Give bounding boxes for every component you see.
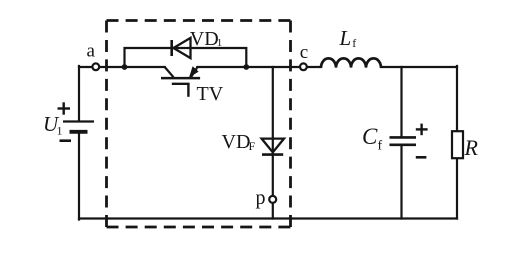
battery minus sign	[60, 139, 72, 142]
capacitor Cf bottom plate	[390, 144, 417, 147]
transistor TV collector diagonal	[165, 67, 174, 77]
svg-text:f: f	[352, 36, 356, 50]
battery U1 long plate	[63, 120, 94, 122]
capacitor plus sign	[416, 124, 428, 136]
svg-text:L: L	[339, 26, 352, 50]
transistor TV emitter diagonal	[191, 67, 197, 77]
freewheel diode VDF triangle	[262, 139, 284, 153]
node p terminal circle	[269, 196, 276, 203]
svg-text:VD: VD	[190, 28, 219, 50]
diode VD1 triangle	[174, 38, 191, 58]
capacitor minus sign	[416, 156, 427, 159]
wire: main top bus after inductor to right corner	[381, 66, 457, 68]
svg-text:VD: VD	[222, 131, 251, 153]
node a terminal circle	[92, 63, 99, 70]
wire: bottom return bus	[79, 217, 457, 219]
svg-text:p: p	[256, 187, 266, 209]
svg-text:TV: TV	[197, 83, 224, 105]
svg-text:1: 1	[217, 37, 223, 49]
svg-text:f: f	[378, 139, 383, 154]
diode VD1 cathode bar	[170, 40, 173, 56]
wire: main top bus right of TV to inductor	[197, 66, 321, 68]
junction dot left (collector node)	[122, 64, 128, 70]
junction dot right (emitter node)	[243, 64, 249, 70]
wire: left vertical (source branch)	[78, 66, 80, 220]
capacitor Cf top plate	[390, 136, 417, 139]
svg-text:c: c	[300, 42, 308, 63]
transistor TV gate lead	[187, 84, 189, 97]
svg-text:1: 1	[57, 124, 63, 138]
resistor R body	[452, 131, 463, 158]
svg-text:C: C	[362, 124, 378, 149]
transistor TV base bar	[161, 77, 200, 80]
freewheel diode VDF cathode bar	[262, 153, 283, 156]
transistor TV emitter arrow	[189, 66, 199, 77]
dashed enclosure box	[107, 21, 291, 228]
svg-text:R: R	[464, 135, 479, 160]
battery plus sign	[58, 102, 71, 114]
inductor Lf coil	[321, 58, 381, 67]
wire: filter capacitor branch vertical	[400, 67, 402, 219]
transistor TV gate plate	[172, 83, 190, 85]
wire: main top bus left segment (a to TV collector)	[79, 66, 165, 68]
wire: load branch vertical	[456, 66, 458, 219]
svg-text:F: F	[249, 139, 256, 153]
wire: freewheel diode branch vertical	[272, 67, 274, 219]
svg-text:a: a	[87, 41, 96, 62]
battery U1 short plate	[70, 130, 88, 134]
node c terminal circle	[300, 63, 307, 70]
wire: diode branch up/over/down	[125, 48, 247, 67]
